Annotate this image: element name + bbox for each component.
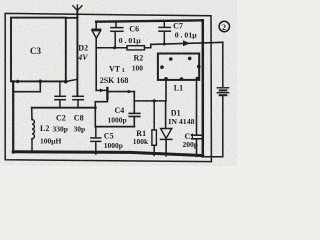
battery positive supply wire [151,42,223,44]
battery bottom lead wire [204,96,223,157]
node B junction dot on C3 bottom edge [39,80,43,84]
junction dot C7-supply wire [163,43,166,46]
capacitor C2 330p [55,96,65,99]
junction dot on drain wire [127,90,130,93]
outer thin frame [5,13,211,161]
C2 bottom lead wire [59,100,61,107]
VT1 drain wire to C4 node [108,91,134,93]
detector node wire C4top-R1-D1 [134,100,165,102]
source node wire to C4 bottom [95,126,134,128]
L1 terminal dots bottom row [164,77,199,81]
L1 terminal dots top row [169,57,192,61]
L1 right bottom lead wire [196,80,198,135]
shielded coil L1 box [158,54,199,80]
JFET VT1 2SK168 gate lead [96,89,106,91]
inductor L2 100uH [32,120,34,139]
antenna lead wire [76,11,78,96]
capacitor C7 0.01u [163,21,165,27]
inner thick frame right edge [202,20,205,156]
VT1 gate arrow [100,89,105,93]
resistor R1 100k [153,101,155,130]
D2 anode to gate vertical wire [95,38,97,90]
inner thick frame lower-left edge [12,81,14,152]
inner thick frame top rail [96,20,203,21]
battery top lead wire [222,42,224,86]
resistor R2 100 [96,47,127,49]
wire node B down and left to frame [13,81,40,91]
diode D1 IN4148 [165,101,167,128]
L2 bottom lead wire [31,139,33,153]
C2 top lead wire [59,82,61,96]
variable capacitor block C3 [11,18,66,82]
L1 terminal dots sides [160,65,200,69]
current direction arrow [183,40,190,46]
VT1 channel bar [106,88,108,99]
C3 top edge extension wire to antenna [66,17,78,19]
battery GB [217,88,228,95]
C3 bottom edge terminal dot [16,80,19,83]
capacitor C6 0.01u [115,22,117,28]
junction dot source-rail [94,106,97,109]
L1 left bottom lead wire [165,80,167,101]
node A junction dot [64,80,68,84]
junction dot R1 top [153,99,156,102]
L2 top lead wire [31,108,33,120]
inner thick frame bottom ground rail [13,152,203,156]
antenna [73,5,82,11]
VT1 source wire [95,99,107,127]
capacitor C8 30p [73,96,83,99]
capacitor C1 200p [192,135,202,139]
capacitor C4 1000p [133,92,135,113]
tank return rail wire [32,107,96,109]
output terminal circle 2 [219,21,229,31]
zener diode D2 4V [92,22,101,39]
wire jog antenna to node A [66,79,77,81]
junction dot C6 on R2 left wire [113,46,116,49]
C8 bottom lead wire [77,100,79,107]
R2 right wire jog to supply [145,44,151,47]
capacitor C5 1000p [95,127,97,138]
